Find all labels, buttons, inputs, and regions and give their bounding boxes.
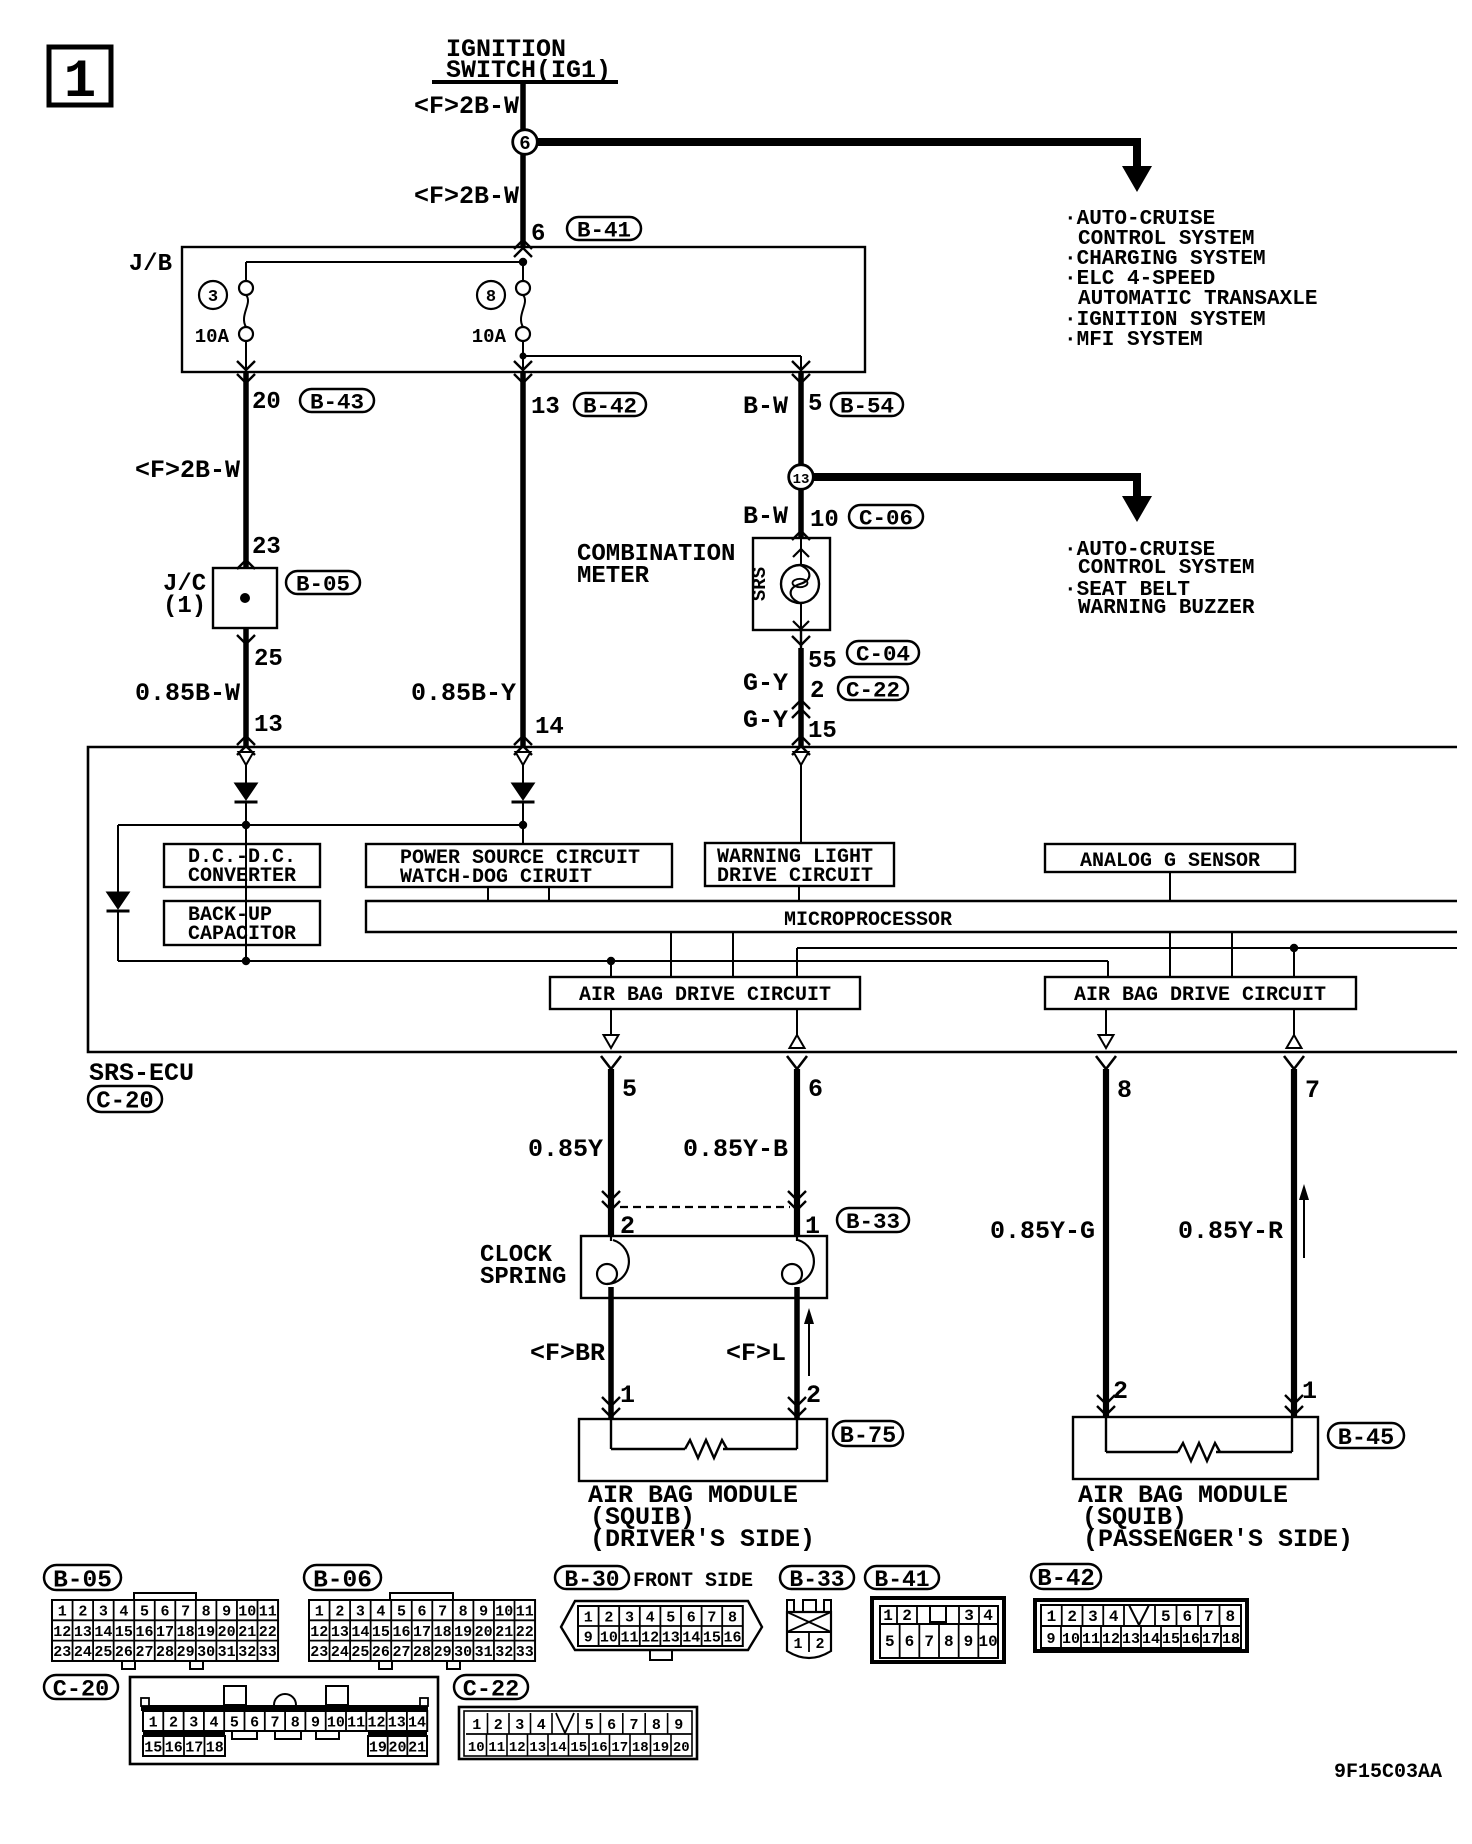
air bag module passenger side label (1078, 1481, 1353, 1554)
svg-text:7: 7 (924, 1633, 934, 1651)
svg-text:16: 16 (135, 1624, 153, 1641)
svg-text:29: 29 (177, 1644, 195, 1661)
svg-text:3: 3 (208, 288, 218, 307)
pin 8 label (1117, 1076, 1132, 1105)
connector symbol ECU pin 7 (1287, 1009, 1302, 1048)
svg-text:7: 7 (181, 1604, 190, 1621)
svg-text:10A: 10A (472, 326, 507, 348)
svg-text:18: 18 (177, 1624, 195, 1641)
pin 13 at B-42 (531, 394, 560, 421)
connector B-42 table callout (1031, 1564, 1101, 1593)
svg-text:·MFI SYSTEM: ·MFI SYSTEM (1064, 329, 1203, 352)
svg-text:15: 15 (808, 718, 837, 745)
svg-text:17: 17 (611, 1740, 628, 1756)
svg-text:G-Y: G-Y (743, 669, 788, 698)
node 6 (splice) (513, 130, 538, 155)
combination meter SRS warning lamp (749, 538, 830, 630)
connector B-42 callout (574, 393, 646, 420)
svg-text:33: 33 (516, 1644, 534, 1661)
pin 55 at C-04 (808, 648, 837, 675)
svg-text:3: 3 (1088, 1608, 1098, 1626)
svg-text:10: 10 (600, 1629, 618, 1646)
svg-text:METER: METER (577, 563, 650, 590)
svg-text:7: 7 (438, 1604, 447, 1621)
wire ECU pin 5 to clock spring pin 2 (601, 1056, 621, 1236)
svg-text:1: 1 (1047, 1608, 1057, 1626)
connector B-33 callout (837, 1208, 909, 1235)
svg-text:26: 26 (115, 1644, 133, 1661)
current direction arrow passenger side (1299, 1184, 1309, 1258)
fuse 3 10A (195, 281, 253, 348)
D.C.-D.C. converter block (164, 844, 320, 888)
joint connector J/C(1) B-05 (163, 568, 277, 628)
svg-text:12: 12 (641, 1629, 659, 1646)
svg-text:<F>2B-W: <F>2B-W (414, 182, 519, 211)
svg-text:15: 15 (703, 1629, 721, 1646)
svg-text:27: 27 (392, 1644, 410, 1661)
wire microprocessor bus to air bag drive pins (797, 944, 1457, 978)
svg-text:19: 19 (369, 1739, 387, 1756)
module pin 1 label driver (620, 1381, 635, 1410)
svg-text:5: 5 (585, 1717, 594, 1734)
node junction dot at J/B entry (519, 258, 527, 266)
svg-text:B-W: B-W (743, 392, 788, 421)
svg-text:20: 20 (673, 1740, 690, 1756)
svg-text:4: 4 (376, 1604, 385, 1621)
pin 2 at C-22 (810, 678, 824, 705)
wire node 13 branch to seat belt buzzer (813, 477, 1152, 522)
svg-text:B-33: B-33 (789, 1567, 844, 1593)
svg-text:FRONT SIDE: FRONT SIDE (633, 1570, 753, 1593)
svg-text:CONTROL SYSTEM: CONTROL SYSTEM (1078, 557, 1254, 580)
svg-text:WATCH-DOG CIRUIT: WATCH-DOG CIRUIT (400, 866, 592, 889)
svg-text:13: 13 (331, 1624, 349, 1641)
wire node 6 branch to auto-cruise systems (536, 142, 1152, 192)
wire node 6 to J/B (514, 153, 532, 257)
svg-text:B-41: B-41 (577, 218, 631, 244)
svg-text:15: 15 (1162, 1631, 1180, 1648)
svg-text:1: 1 (883, 1607, 893, 1625)
connector C-06 callout (849, 505, 923, 532)
svg-text:17: 17 (1202, 1631, 1220, 1648)
svg-text:6: 6 (531, 221, 545, 248)
svg-text:13: 13 (662, 1629, 680, 1646)
svg-text:8: 8 (944, 1633, 954, 1651)
svg-text:6: 6 (161, 1604, 170, 1621)
svg-text:23: 23 (53, 1644, 71, 1661)
clock spring pin 1 label (805, 1212, 820, 1241)
svg-text:16: 16 (591, 1740, 608, 1756)
svg-text:27: 27 (135, 1644, 153, 1661)
svg-text:10A: 10A (195, 326, 230, 348)
svg-text:8: 8 (1225, 1608, 1235, 1626)
air bag module squib driver side B-75 (579, 1419, 827, 1481)
pin 23 at J/C (252, 534, 281, 561)
svg-text:8: 8 (728, 1609, 737, 1626)
svg-text:12: 12 (53, 1624, 71, 1641)
svg-text:2: 2 (902, 1607, 912, 1625)
wire fuse 8 to J/B bottom and branch to B-54 (514, 341, 810, 383)
connector B-45 callout (1328, 1423, 1404, 1452)
svg-text:2: 2 (604, 1609, 613, 1626)
svg-text:B-33: B-33 (846, 1209, 900, 1235)
wire J/B internal to fuse 3 (246, 262, 523, 281)
svg-text:55: 55 (808, 648, 837, 675)
svg-text:8: 8 (459, 1604, 468, 1621)
connector B-75 callout (833, 1421, 903, 1450)
wire microprocessor to left air bag drive circuit (671, 932, 733, 978)
wire ECU ground bus lower (118, 957, 1108, 978)
svg-text:13: 13 (74, 1624, 92, 1641)
svg-text:3: 3 (189, 1714, 198, 1731)
svg-text:5: 5 (140, 1604, 149, 1621)
svg-text:7: 7 (1305, 1076, 1320, 1105)
svg-text:14: 14 (1142, 1631, 1160, 1648)
wire ignition switch to node 6 (520, 82, 526, 132)
svg-text:2: 2 (335, 1604, 344, 1621)
svg-text:ANALOG G SENSOR: ANALOG G SENSOR (1080, 850, 1260, 873)
svg-text:14: 14 (351, 1624, 369, 1641)
pin 13 at SRS-ECU (254, 712, 283, 739)
connector symbol ECU pin 6 (790, 1009, 805, 1048)
connector C-04 callout (847, 641, 919, 668)
wire label G-Y upper (743, 669, 788, 698)
svg-text:10: 10 (1062, 1631, 1080, 1648)
wire clock spring pin 2 to air bag module driver pin 2 (788, 1287, 806, 1419)
svg-text:21: 21 (408, 1739, 426, 1756)
svg-text:7: 7 (629, 1717, 638, 1734)
microprocessor block (366, 901, 1457, 932)
svg-text:5: 5 (885, 1633, 895, 1651)
svg-text:B-41: B-41 (874, 1567, 929, 1593)
svg-text:5: 5 (622, 1075, 637, 1104)
svg-text:11: 11 (620, 1629, 638, 1646)
svg-text:B-45: B-45 (1338, 1425, 1394, 1452)
svg-text:18: 18 (206, 1739, 224, 1756)
svg-text:3: 3 (625, 1609, 634, 1626)
svg-text:B-W: B-W (743, 502, 788, 531)
svg-text:33: 33 (259, 1644, 277, 1661)
connector symbol pin14 inside ECU (516, 752, 531, 783)
diode D1 (235, 783, 258, 961)
svg-text:13: 13 (388, 1714, 406, 1731)
connector B-30 table callout (555, 1566, 629, 1593)
wire label <F>BR (530, 1339, 605, 1368)
wire label 0.85B-Y (411, 679, 516, 708)
svg-text:14: 14 (682, 1629, 700, 1646)
svg-text:11: 11 (1082, 1631, 1100, 1648)
wire combination meter to SRS-ECU pin 15 (792, 630, 810, 755)
svg-text:14: 14 (408, 1714, 426, 1731)
svg-text:CONVERTER: CONVERTER (188, 865, 296, 888)
svg-text:14: 14 (550, 1740, 567, 1756)
svg-text:22: 22 (259, 1624, 277, 1641)
svg-text:1: 1 (64, 52, 96, 113)
svg-text:B-06: B-06 (313, 1567, 372, 1594)
svg-text:1: 1 (620, 1381, 635, 1410)
svg-text:C-04: C-04 (856, 642, 910, 668)
svg-text:23: 23 (252, 534, 281, 561)
back-up capacitor block (164, 901, 320, 946)
pin 5 label (622, 1075, 637, 1104)
svg-text:18: 18 (434, 1624, 452, 1641)
svg-text:9: 9 (964, 1633, 974, 1651)
svg-text:9: 9 (1046, 1631, 1055, 1648)
svg-text:25: 25 (351, 1644, 369, 1661)
svg-text:2: 2 (78, 1604, 87, 1621)
svg-text:0.85B-Y: 0.85B-Y (411, 679, 516, 708)
svg-text:18: 18 (632, 1740, 649, 1756)
svg-text:3: 3 (964, 1607, 974, 1625)
svg-text:1: 1 (315, 1604, 324, 1621)
svg-text:(DRIVER'S SIDE): (DRIVER'S SIDE) (590, 1525, 815, 1554)
pin 20 at B-43 (252, 389, 281, 416)
svg-text:SRS: SRS (749, 567, 771, 601)
connector C-20 table callout (44, 1675, 118, 1703)
svg-text:17: 17 (185, 1739, 203, 1756)
svg-text:25: 25 (94, 1644, 112, 1661)
connector B-30 pinout table (561, 1601, 762, 1660)
svg-text:17: 17 (156, 1624, 174, 1641)
air bag module squib passenger side B-45 (1073, 1417, 1318, 1479)
connector B-06 pinout table (309, 1593, 535, 1669)
svg-text:3: 3 (356, 1604, 365, 1621)
connector symbol ECU pin 8 (1099, 1009, 1114, 1048)
diode D2 (512, 783, 535, 844)
pin 6 at B-41 (531, 221, 545, 248)
clock spring pin 2 label (620, 1212, 635, 1241)
svg-text:28: 28 (156, 1644, 174, 1661)
svg-text:21: 21 (495, 1624, 513, 1641)
fuse 8 10A (472, 262, 530, 348)
svg-text:B-05: B-05 (296, 572, 350, 598)
module pin 2 label passenger (1113, 1377, 1128, 1406)
svg-text:<F>2B-W: <F>2B-W (414, 92, 519, 121)
svg-text:32: 32 (238, 1644, 256, 1661)
wire clock spring pin 1 to air bag module driver pin 1 (602, 1287, 620, 1419)
svg-text:4: 4 (983, 1607, 993, 1625)
svg-text:3: 3 (515, 1717, 524, 1734)
connector B-54 callout (831, 393, 903, 420)
svg-text:24: 24 (74, 1644, 92, 1661)
svg-text:1: 1 (58, 1604, 67, 1621)
svg-text:2: 2 (169, 1714, 178, 1731)
wire ECU pin 7 to air bag module passenger pin 1 (1284, 1056, 1304, 1417)
svg-text:28: 28 (413, 1644, 431, 1661)
svg-text:6: 6 (905, 1633, 915, 1651)
connector B-43 callout (300, 389, 374, 416)
svg-text:1: 1 (584, 1609, 593, 1626)
dashed connector line B-33 (620, 1206, 790, 1208)
svg-text:12: 12 (1102, 1631, 1120, 1648)
svg-text:9: 9 (479, 1604, 488, 1621)
svg-text:4: 4 (119, 1604, 128, 1621)
connector B-05 pinout table (52, 1593, 278, 1669)
wire label <F>2B-W upper (414, 92, 519, 121)
wire label 0.85Y-G (990, 1217, 1095, 1246)
connector B-05 table callout (44, 1565, 121, 1594)
svg-text:19: 19 (454, 1624, 472, 1641)
svg-text:16: 16 (723, 1629, 741, 1646)
power source circuit watch-dog circuit block (366, 844, 672, 901)
wire ECU pin 8 to air bag module passenger pin 2 (1096, 1056, 1116, 1417)
svg-text:13: 13 (529, 1740, 546, 1756)
svg-text:15: 15 (115, 1624, 133, 1641)
connector symbol pin13 inside ECU (239, 752, 254, 783)
svg-text:30: 30 (197, 1644, 215, 1661)
drawing number 9F15C03AA (1334, 1761, 1442, 1784)
page number box 1 (49, 47, 111, 113)
clock spring (480, 1236, 827, 1298)
svg-text:19: 19 (652, 1740, 669, 1756)
connector symbol ECU pin 5 (604, 1009, 619, 1048)
svg-text:WARNING BUZZER: WARNING BUZZER (1078, 597, 1255, 620)
ignition switch (IG1) label (432, 35, 618, 85)
connector C-22 pinout table (459, 1707, 697, 1759)
svg-text:C-20: C-20 (53, 1676, 109, 1703)
pin 15 at SRS-ECU (808, 718, 837, 745)
connector symbol pin15 inside ECU (794, 752, 809, 901)
wire label 0.85Y-R (1178, 1217, 1283, 1246)
connector B-41 table callout (865, 1566, 939, 1593)
svg-text:30: 30 (454, 1644, 472, 1661)
svg-text:0.85Y-B: 0.85Y-B (683, 1135, 788, 1164)
system list auto-cruise charging elc ignition mfi (1064, 208, 1317, 352)
wire J/B to node 13 (798, 372, 804, 466)
junction block J/B (129, 247, 865, 372)
svg-text:C-22: C-22 (463, 1676, 519, 1703)
wire ECU pin 6 to clock spring pin 1 (787, 1056, 807, 1236)
svg-text:11: 11 (259, 1604, 277, 1621)
svg-text:<F>L: <F>L (726, 1339, 786, 1368)
svg-text:11: 11 (347, 1714, 365, 1731)
air bag drive circuit block driver side (550, 977, 860, 1009)
svg-text:B-43: B-43 (310, 390, 364, 416)
pin 5 at B-54 (808, 391, 822, 418)
svg-text:2: 2 (815, 1636, 824, 1653)
svg-text:0.85Y-G: 0.85Y-G (990, 1217, 1095, 1246)
pin 14 at SRS-ECU (535, 714, 564, 741)
svg-text:<F>BR: <F>BR (530, 1339, 605, 1368)
svg-text:0.85B-W: 0.85B-W (135, 679, 240, 708)
pin 10 at C-06 (810, 507, 839, 534)
svg-text:SRS-ECU: SRS-ECU (89, 1059, 194, 1088)
front side label (633, 1570, 753, 1593)
wire label B-W upper (743, 392, 788, 421)
svg-text:(1): (1) (163, 593, 206, 620)
svg-text:G-Y: G-Y (743, 706, 788, 735)
wire ECU power bus upper (118, 821, 527, 892)
module pin 1 label passenger (1302, 1377, 1317, 1406)
svg-text:15: 15 (372, 1624, 390, 1641)
svg-text:6: 6 (687, 1609, 696, 1626)
svg-text:29: 29 (434, 1644, 452, 1661)
svg-text:8: 8 (486, 288, 496, 307)
svg-text:17: 17 (413, 1624, 431, 1641)
svg-text:12: 12 (509, 1740, 526, 1756)
svg-text:31: 31 (218, 1644, 236, 1661)
svg-text:4: 4 (1109, 1608, 1119, 1626)
svg-text:8: 8 (652, 1717, 661, 1734)
svg-text:6: 6 (1182, 1608, 1192, 1626)
svg-text:DRIVE CIRCUIT: DRIVE CIRCUIT (717, 865, 873, 888)
svg-text:6: 6 (418, 1604, 427, 1621)
svg-text:20: 20 (218, 1624, 236, 1641)
wire label 0.85B-W (135, 679, 240, 708)
svg-text:13: 13 (793, 472, 810, 488)
svg-text:13: 13 (1122, 1631, 1140, 1648)
wire label <F>L (726, 1339, 786, 1368)
wire label 0.85Y (528, 1135, 603, 1164)
pin 25 at J/C (254, 646, 283, 673)
wire J/C(1) to SRS-ECU pin 13 (237, 628, 255, 755)
svg-text:9F15C03AA: 9F15C03AA (1334, 1761, 1442, 1784)
svg-text:13: 13 (254, 712, 283, 739)
svg-text:10: 10 (468, 1740, 485, 1756)
SRS-ECU label (89, 1059, 194, 1088)
svg-text:16: 16 (392, 1624, 410, 1641)
svg-text:6: 6 (607, 1717, 616, 1734)
svg-text:2: 2 (494, 1717, 503, 1734)
svg-text:20: 20 (252, 389, 281, 416)
air bag module driver side label (588, 1481, 815, 1554)
svg-text:15: 15 (144, 1739, 162, 1756)
connector C-22 callout (838, 677, 908, 704)
node 13 (splice) (789, 465, 814, 490)
svg-text:2: 2 (806, 1381, 821, 1410)
svg-text:9: 9 (674, 1717, 683, 1734)
diode D3 backup branch (107, 892, 130, 961)
svg-text:13: 13 (531, 394, 560, 421)
wire fuse 3 to J/B bottom (237, 341, 255, 383)
svg-text:1: 1 (472, 1717, 481, 1734)
svg-text:5: 5 (666, 1609, 675, 1626)
connector B-41 callout (567, 217, 641, 244)
svg-text:6: 6 (519, 133, 530, 155)
wire label <F>2B-W branch (135, 456, 240, 485)
system list auto-cruise seat-belt (1064, 539, 1255, 620)
svg-text:1: 1 (149, 1714, 158, 1731)
svg-text:8: 8 (202, 1604, 211, 1621)
svg-text:AIR BAG DRIVE CIRCUIT: AIR BAG DRIVE CIRCUIT (1074, 984, 1326, 1007)
warning light drive circuit block (705, 843, 894, 888)
svg-text:4: 4 (537, 1717, 546, 1734)
svg-text:7: 7 (270, 1714, 279, 1731)
connector B-05 callout (286, 571, 360, 598)
svg-text:10: 10 (979, 1633, 998, 1651)
svg-text:6: 6 (250, 1714, 259, 1731)
svg-text:9: 9 (584, 1629, 593, 1646)
svg-text:5: 5 (1161, 1608, 1171, 1626)
svg-text:AUTOMATIC TRANSAXLE: AUTOMATIC TRANSAXLE (1078, 288, 1317, 311)
svg-text:11: 11 (516, 1604, 534, 1621)
svg-text:B-42: B-42 (1037, 1566, 1095, 1593)
svg-text:2: 2 (1113, 1377, 1128, 1406)
svg-text:0.85Y: 0.85Y (528, 1135, 603, 1164)
svg-text:20: 20 (388, 1739, 406, 1756)
svg-text:0.85Y-R: 0.85Y-R (1178, 1217, 1283, 1246)
svg-text:32: 32 (495, 1644, 513, 1661)
current direction arrow driver side (804, 1308, 814, 1376)
svg-text:11: 11 (488, 1740, 505, 1756)
air bag drive circuit block passenger side (1045, 977, 1356, 1009)
svg-text:15: 15 (570, 1740, 587, 1756)
svg-text:18: 18 (1222, 1631, 1240, 1648)
svg-text:5: 5 (808, 391, 822, 418)
svg-text:4: 4 (210, 1714, 219, 1731)
wire label B-W lower (743, 502, 788, 531)
svg-text:CAPACITOR: CAPACITOR (188, 923, 296, 946)
